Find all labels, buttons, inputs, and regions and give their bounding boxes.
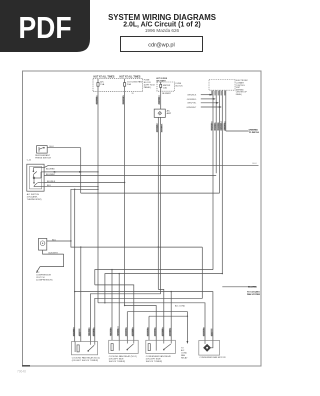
wire relay K2 pin3 to arrow xyxy=(127,312,187,342)
ECU wire 1 xyxy=(212,90,214,269)
svg-text:SHOCK TOWER): SHOCK TOWER) xyxy=(109,361,126,363)
svg-text:(COMPRESSOR): (COMPRESSOR) xyxy=(36,279,53,281)
svg-text:RELAY: RELAY xyxy=(181,356,188,359)
K3 switch xyxy=(163,340,171,350)
svg-text:BLU/RED: BLU/RED xyxy=(93,327,95,337)
svg-text:BLU/ORN: BLU/ORN xyxy=(148,326,150,336)
svg-text:20A: 20A xyxy=(127,83,131,86)
svg-text:BLOCK: BLOCK xyxy=(176,86,184,88)
svg-text:HOT AT ALL TIMES: HOT AT ALL TIMES xyxy=(94,75,115,78)
relay K2 box xyxy=(109,340,139,353)
wire ECU2 turn to assembly xyxy=(44,174,216,176)
ticks box1 wires xyxy=(73,329,75,336)
svg-text:BLU/ORN: BLU/ORN xyxy=(204,326,206,336)
motor wires into box xyxy=(204,341,206,344)
wire F2 to relay K3 pins xyxy=(125,306,157,341)
svg-text:BLK/WHT: BLK/WHT xyxy=(74,326,76,336)
svg-text:BLU: BLU xyxy=(79,332,81,337)
svg-text:YEL/RED: YEL/RED xyxy=(89,327,91,336)
ECU dashed box xyxy=(209,80,235,91)
wire twin a to relay K3 pin3 xyxy=(158,289,164,340)
svg-text:AMP: AMP xyxy=(167,112,172,115)
wire from pressure switch to V x=80.7 xyxy=(47,147,80,149)
svg-text:YEL/BLU: YEL/BLU xyxy=(215,122,217,131)
wire tick label on F3 wire xyxy=(158,97,160,104)
relay K3 box xyxy=(146,340,176,353)
svg-text:BLU/RED: BLU/RED xyxy=(97,95,99,105)
ECU wire 3 xyxy=(218,90,220,193)
svg-text:GRN/YEL: GRN/YEL xyxy=(187,103,197,105)
arrowhead down xyxy=(187,341,189,344)
svg-text:YEL/GRN: YEL/GRN xyxy=(111,327,113,337)
wire clutch return to motor pin2 xyxy=(75,292,213,341)
clutch box xyxy=(39,238,47,250)
svg-text:YEL/RED: YEL/RED xyxy=(218,121,220,130)
svg-text:PRESS SWITCH: PRESS SWITCH xyxy=(35,158,51,160)
svg-text:cdr@wp.pl: cdr@wp.pl xyxy=(148,43,175,49)
fuse F2 COOLING FAN 20A xyxy=(124,79,126,92)
K1 coil xyxy=(77,345,79,352)
svg-text:BLK/WHT: BLK/WHT xyxy=(159,95,161,105)
svg-text:BLU: BLU xyxy=(253,163,257,165)
svg-text:GRN/BLK: GRN/BLK xyxy=(187,95,197,97)
svg-text:BLU/WHT: BLU/WHT xyxy=(132,326,134,336)
svg-text:BLU/ORN: BLU/ORN xyxy=(155,326,157,336)
branch to relay K3 pin4 xyxy=(171,291,172,292)
switch contacts inside assembly xyxy=(33,168,44,187)
corner tick xyxy=(22,365,30,367)
svg-text:TO DEFOG: TO DEFOG xyxy=(249,132,260,134)
svg-text:SHOCK TOWER): SHOCK TOWER) xyxy=(146,361,163,363)
svg-text:BLU/BLK: BLU/BLK xyxy=(47,181,56,183)
ignition fuse dashed box xyxy=(157,82,175,91)
svg-text:BLU/WHT: BLU/WHT xyxy=(157,122,159,132)
wire from fuse F2 down xyxy=(124,92,126,306)
svg-text:THERMOSTAT): THERMOSTAT) xyxy=(27,198,42,201)
ECU wire 4 xyxy=(221,90,223,273)
wire assembly with connector arrows xyxy=(44,171,98,173)
diagonal stub to long wire xyxy=(44,165,48,167)
svg-text:79648: 79648 xyxy=(17,370,26,374)
svg-text:GRN/WHT: GRN/WHT xyxy=(118,326,120,337)
wire tap to relay K2 pin2 xyxy=(105,274,222,303)
svg-text:A/C COND: A/C COND xyxy=(175,305,186,308)
svg-text:GRN/WHT: GRN/WHT xyxy=(221,120,223,131)
A/C switch assembly inner box xyxy=(29,167,41,189)
svg-text:FAN SYSTEM: FAN SYSTEM xyxy=(247,293,260,296)
svg-text:BLU: BLU xyxy=(50,146,55,148)
wire assembly fourth to fuse1 join xyxy=(44,186,98,188)
wire from fuse F1 down with jog xyxy=(97,92,99,303)
K2 coil xyxy=(111,344,113,351)
svg-text:1996 Mazda 626: 1996 Mazda 626 xyxy=(145,28,180,33)
svg-text:10A: 10A xyxy=(163,86,167,89)
svg-text:BLU: BLU xyxy=(47,185,51,187)
svg-text:A/C: A/C xyxy=(100,81,104,84)
wire ECU1 to relay K2 pin1 xyxy=(95,270,213,285)
svg-text:BLU/RED: BLU/RED xyxy=(248,287,257,289)
svg-text:BLK: BLK xyxy=(212,332,214,337)
email box xyxy=(121,37,203,52)
svg-text:(ON LEFT SHOCK TOWER): (ON LEFT SHOCK TOWER) xyxy=(72,360,99,362)
fuse F3 METER 10A xyxy=(160,82,162,91)
junction dot at twin xyxy=(158,246,159,247)
svg-text:15A: 15A xyxy=(100,83,104,86)
wire assembly to right edge (long) xyxy=(49,164,259,166)
K1 switch xyxy=(88,342,95,352)
ticks box2 wires xyxy=(110,329,112,336)
ECU wire 5 turn to right edge xyxy=(226,130,249,132)
svg-text:CONDENSER FAN MOTOR: CONDENSER FAN MOTOR xyxy=(199,356,226,359)
wire down and back xyxy=(40,254,64,267)
ticks motor wires xyxy=(203,329,205,336)
wire ECU4 to right edge xyxy=(222,286,256,288)
wire bus to relay K2 pin4 xyxy=(95,285,134,340)
svg-text:BLU: BLU xyxy=(52,239,57,241)
branch to relay K1 pin1 xyxy=(74,189,75,190)
fuse F1 A/C 15A xyxy=(97,79,99,92)
refrigerant pressure switch box xyxy=(37,146,48,154)
svg-text:BLK/WHT: BLK/WHT xyxy=(162,93,171,95)
clutch top wire to right xyxy=(47,240,71,242)
svg-text:BLU/ORN: BLU/ORN xyxy=(123,95,125,105)
junction on F2 wire xyxy=(124,305,125,306)
condenser fan motor box xyxy=(199,341,220,356)
svg-text:PDF: PDF xyxy=(19,10,72,45)
A/C relay diamond symbol xyxy=(158,111,162,115)
svg-text:GRN/RED: GRN/RED xyxy=(224,121,226,131)
clutch bottom wire xyxy=(43,250,64,254)
svg-text:BLK/WHT: BLK/WHT xyxy=(49,252,59,254)
svg-text:BLU/ORN: BLU/ORN xyxy=(126,326,128,336)
svg-text:GRN/WHT: GRN/WHT xyxy=(186,107,197,109)
inline connector arrow a xyxy=(54,171,57,173)
svg-text:BLU/BLK: BLU/BLK xyxy=(161,123,163,132)
wire assembly third to fuse2 join xyxy=(44,182,125,184)
svg-text:BLU/WHT: BLU/WHT xyxy=(162,326,164,336)
svg-text:HOT AT ALL TIMES: HOT AT ALL TIMES xyxy=(120,75,141,78)
wire ECU3 to pressure switch line xyxy=(81,192,220,194)
inline connector arrow b xyxy=(79,171,82,173)
wire relay K3 pin1 tap xyxy=(149,315,187,317)
branch bus to relay K1 pin2 xyxy=(80,246,81,247)
svg-text:DASH): DASH) xyxy=(236,93,242,96)
pressure switch contacts xyxy=(39,147,44,152)
A/C relay box U2 xyxy=(154,109,165,117)
wire assembly lower to motor pin1 xyxy=(98,303,205,341)
A/C switch assembly outer box xyxy=(27,164,44,191)
ECU wire 2 xyxy=(215,90,217,173)
wire from fuse F3 down xyxy=(160,91,162,109)
relay K1 box xyxy=(71,342,97,355)
fuse block dashed box xyxy=(93,78,143,91)
drawing frame xyxy=(23,71,262,366)
twin wires down from relay xyxy=(157,117,159,289)
motor M1 symbol xyxy=(203,344,211,352)
svg-text:GRN/RED: GRN/RED xyxy=(187,99,197,101)
long wire V1 down left side xyxy=(80,148,82,193)
K3 coil xyxy=(148,344,150,351)
wire twin b to relay K1 pin3 xyxy=(90,294,160,342)
K2 switch xyxy=(127,340,134,350)
svg-text:YEL/GRN: YEL/GRN xyxy=(212,121,214,131)
ticks box3 wires xyxy=(147,329,149,336)
twin wire ticks xyxy=(156,125,158,132)
ECU pin marks xyxy=(211,91,225,96)
svg-text:BLU/RED: BLU/RED xyxy=(46,168,55,170)
tick on F1 wire xyxy=(96,97,98,104)
clutch coil circle xyxy=(40,241,45,246)
PDF badge xyxy=(0,0,90,52)
tick on F2 wire xyxy=(122,97,124,104)
svg-text:PANEL): PANEL) xyxy=(144,86,152,89)
svg-text:COOLING FAN: COOLING FAN xyxy=(127,81,142,84)
ECU wire 5 xyxy=(225,90,227,131)
svg-text:BLU/BLK: BLU/BLK xyxy=(170,327,172,336)
wire loop from clutch bus to relay K1 pin4 xyxy=(95,247,203,342)
splice diagonal xyxy=(37,267,40,272)
ECU wire ticks xyxy=(211,123,213,130)
